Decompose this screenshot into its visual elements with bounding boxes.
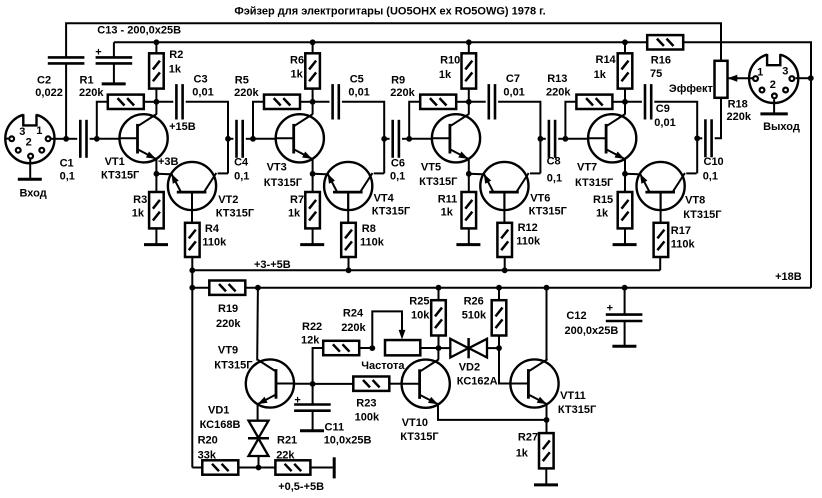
wire R5 left lead (253, 102, 264, 139)
transistor VT6 КТ315Г (480, 162, 528, 210)
svg-text:Вход: Вход (20, 187, 47, 199)
wire C8 right lead (558, 138, 565, 140)
svg-text:Фэйзер для электрогитары (UO5O: Фэйзер для электрогитары (UO5OHX ex RO5O… (234, 6, 545, 18)
wire collector VT5 (468, 102, 470, 115)
transistor VT10 КТ315Г (402, 359, 450, 407)
svg-text:C2: C2 (37, 75, 51, 87)
svg-text:R27: R27 (518, 432, 538, 444)
node base VT7 (563, 136, 569, 142)
capacitor C11 (electrolytic) (294, 405, 331, 411)
wire R22 left lead (313, 348, 324, 384)
svg-text:+: + (294, 395, 300, 407)
node input junction (63, 136, 69, 142)
wire C7 left lead (469, 101, 486, 103)
node phase sum 3 (538, 136, 544, 142)
wire base VT8 down (660, 192, 662, 223)
wire collector VT7 (624, 102, 626, 115)
wire VT11 emitter to R27 (546, 404, 548, 433)
wire R8 bottom lead (348, 257, 350, 270)
svg-text:1k: 1k (441, 207, 454, 219)
svg-text:1k: 1k (291, 69, 304, 81)
svg-text:+0,5-+5В: +0,5-+5В (278, 481, 324, 493)
transistor VT2 КТ315Г (168, 162, 216, 210)
resistor R3 1k (149, 192, 164, 228)
svg-text:КТ315Г: КТ315Г (214, 360, 253, 372)
wire R23 left lead (313, 383, 354, 385)
svg-text:R26: R26 (464, 296, 484, 308)
svg-text:VT7: VT7 (577, 162, 597, 174)
ground C12 (612, 345, 636, 348)
wire C10 left lead (697, 137, 702, 139)
wire R1 right lead (144, 101, 157, 103)
node collector VT5 (466, 99, 472, 105)
wire collector VT2 (218, 172, 228, 174)
svg-text:100k: 100k (355, 412, 380, 424)
wire VD1 to bottom node (258, 456, 260, 468)
node VD1 bottom (256, 465, 262, 471)
wire R13 right lead (612, 101, 625, 103)
transistor VT8 КТ315Г (637, 162, 685, 210)
wire C3 left lead (156, 101, 173, 103)
svg-text:110k: 110k (671, 239, 696, 251)
svg-text:C11: C11 (325, 422, 345, 434)
svg-text:110k: 110k (360, 236, 385, 248)
capacitor C9 0,01 (645, 84, 651, 119)
svg-text:КТ315Г: КТ315Г (558, 404, 597, 416)
svg-text:C5: C5 (350, 74, 364, 86)
node emitter VT7 (622, 171, 628, 177)
wire base VT4 down (347, 192, 349, 223)
svg-text:220k: 220k (546, 86, 571, 98)
svg-text:R12: R12 (518, 222, 538, 234)
transistor VT4 КТ315Г (324, 162, 372, 210)
svg-text:220k: 220k (341, 322, 366, 334)
node emitter VT5 (466, 171, 472, 177)
svg-text:0,01: 0,01 (654, 117, 675, 129)
wire R7 top lead (312, 174, 314, 192)
svg-text:22k: 22k (276, 449, 295, 461)
svg-text:1k: 1k (439, 69, 452, 81)
wire C9 to C10 node (654, 102, 697, 174)
wire C13 bottom lead (113, 64, 115, 84)
svg-text:КТ315Г: КТ315Г (400, 431, 439, 443)
wire VT11 collector (546, 288, 548, 360)
connector XS1 Вход (DIN-5) (5, 112, 54, 163)
svg-text:R1: R1 (80, 75, 94, 87)
node supply tap R10 (466, 39, 472, 45)
capacitor C12 (electrolytic) (606, 315, 643, 321)
wire emitter VT5 (468, 159, 470, 174)
resistor R26 510k (492, 300, 507, 335)
svg-text:VT2: VT2 (218, 194, 238, 206)
wire R26 top lead (498, 288, 500, 301)
svg-text:C8: C8 (547, 156, 561, 168)
svg-text:R2: R2 (169, 49, 183, 61)
wire supply rail right to +18V corner (683, 42, 811, 287)
resistor R1 220k (108, 95, 144, 109)
wire C11 top lead (312, 384, 314, 405)
svg-text:10k: 10k (411, 310, 430, 322)
svg-text:Эффект: Эффект (669, 83, 714, 95)
svg-text:1k: 1k (132, 207, 145, 219)
svg-text:33k: 33k (198, 449, 217, 461)
wire R27 bottom lead (545, 468, 547, 484)
node collector VT1 (154, 99, 160, 105)
node collector VT7 (622, 99, 628, 105)
svg-text:КТ315Г: КТ315Г (575, 177, 614, 189)
svg-text:+18В: +18В (775, 271, 802, 283)
node R26 tap (496, 285, 502, 291)
svg-text:1: 1 (36, 125, 42, 137)
svg-text:КТ315Г: КТ315Г (419, 176, 458, 188)
wire collector VT1 (155, 102, 157, 115)
wire emitter VT3 (312, 159, 314, 174)
wire C5 to node (342, 102, 384, 174)
wire C5 left lead (313, 101, 330, 103)
wire VT9 emitter to VD1 (257, 404, 259, 421)
wire base VT3 (253, 138, 276, 140)
capacitor C7 0,01 (489, 84, 495, 119)
wire C12 bottom lead (624, 321, 626, 346)
wire emitter VT7 (624, 159, 626, 174)
svg-text:C12: C12 (566, 310, 586, 322)
ground C13 (102, 82, 126, 85)
svg-text:R16: R16 (651, 55, 671, 67)
svg-text:10,0x25В: 10,0x25В (324, 434, 372, 446)
wire R1 left lead (97, 102, 108, 139)
svg-text:VD1: VD1 (208, 404, 229, 416)
wire base VT7 (565, 138, 588, 140)
node emitter join (544, 417, 550, 423)
zener VD2 КС162А (450, 338, 487, 358)
svg-text:0,1: 0,1 (234, 171, 249, 183)
wire C9 left lead (625, 101, 642, 103)
node R8 bias tap (346, 267, 352, 273)
wire R11 top lead (468, 174, 470, 192)
node emitter VT3 (310, 171, 316, 177)
wire R12 bottom lead (504, 257, 506, 270)
node C10 junction (694, 135, 700, 141)
resistor R5 220k (264, 95, 300, 109)
wire C6 right lead (402, 138, 409, 140)
wire R26 bottom lead (498, 336, 500, 349)
wire C11 bottom lead (312, 411, 314, 431)
wiper arrow R18 (728, 75, 738, 82)
wire bias rail +3-+5В (192, 269, 660, 271)
svg-text:110k: 110k (202, 236, 227, 248)
svg-text:C6: C6 (391, 157, 405, 169)
svg-text:КТ315Г: КТ315Г (101, 169, 140, 181)
wire R6 bottom lead (312, 89, 314, 102)
svg-text:КТ315Г: КТ315Г (216, 207, 255, 219)
wire collector VT8 (686, 172, 696, 174)
svg-text:1k: 1k (288, 207, 301, 219)
wiper arrow R24 (399, 330, 406, 340)
capacitor C13 (electrolytic) (96, 57, 133, 63)
resistor R13 220k (576, 95, 612, 109)
wire VT10 collector (437, 348, 439, 360)
wire +18V rail (245, 287, 811, 289)
transistor VT3 КТ315Г (276, 114, 324, 162)
svg-text:1: 1 (757, 67, 763, 79)
svg-text:R13: R13 (547, 73, 567, 85)
node supply tap R6 (310, 39, 316, 45)
svg-text:0,1: 0,1 (547, 172, 562, 184)
svg-text:12k: 12k (301, 334, 320, 346)
wire VT10 emitter (438, 404, 547, 420)
node output pin3 junction (808, 75, 814, 81)
wire R25 top lead (438, 288, 440, 301)
wire C1 right lead (90, 138, 97, 140)
svg-text:R21: R21 (277, 435, 297, 447)
svg-text:R17: R17 (671, 225, 691, 237)
wire base VT6 down (503, 192, 505, 223)
wire R18 wiper to output pin1 (728, 77, 753, 79)
transistor VT7 КТ315Г (588, 114, 636, 162)
ground R21 (bar) (333, 457, 336, 478)
svg-text:R8: R8 (362, 223, 376, 235)
wire R11 bottom lead (468, 228, 470, 244)
resistor R16 (647, 35, 683, 49)
ground Вход (18, 178, 42, 181)
wire R10 top lead (468, 42, 470, 53)
node collector VT3 (310, 99, 316, 105)
wire R21 to ground (310, 467, 332, 469)
transistor VT1 КТ315Г (120, 114, 168, 162)
svg-text:R25: R25 (409, 296, 429, 308)
svg-text:1k: 1k (169, 64, 182, 76)
ground R11 (456, 243, 480, 246)
node +18V rail left (189, 285, 195, 291)
resistor R6 1k (305, 53, 320, 88)
wire R3 top lead (155, 174, 157, 192)
wire bottom left corner (192, 467, 202, 469)
wire R23 to VT10 base (389, 383, 401, 385)
resistor R25 10k (431, 300, 446, 335)
svg-text:+3-+5В: +3-+5В (254, 259, 291, 271)
wire R6 top lead (312, 42, 314, 53)
svg-text:Выход: Выход (763, 121, 800, 133)
svg-text:VT6: VT6 (530, 192, 550, 204)
resistor R20 33k (202, 460, 238, 474)
node C12 tap (622, 285, 628, 291)
wire C10 right lead to R18 bottom (715, 98, 721, 139)
wire C3 to node (186, 102, 228, 174)
zener VD1 КС168В (248, 421, 269, 456)
wire top rail input to R18 (65, 64, 67, 139)
wire output pin3 to +18V line (796, 77, 812, 79)
svg-text:1k: 1k (594, 69, 607, 81)
ground R7 (300, 243, 324, 246)
resistor R21 22k (275, 460, 310, 474)
svg-text:КС168В: КС168В (200, 419, 241, 431)
svg-text:220k: 220k (216, 318, 241, 330)
svg-text:C7: C7 (506, 73, 520, 85)
capacitor C5 0,01 (333, 84, 339, 119)
wire C1 left lead (66, 138, 77, 140)
svg-text:220k: 220k (390, 87, 415, 99)
svg-text:C3: C3 (194, 74, 208, 86)
wire emitter link VT4 (313, 173, 327, 175)
resistor R12 110k (497, 223, 512, 257)
node VT9 collector tap (255, 285, 261, 291)
resistor R7 1k (305, 192, 320, 228)
wire C7 to node (498, 102, 540, 174)
node bias rail left (189, 267, 195, 273)
transistor VT9 КТ315Г (246, 359, 294, 407)
resistor R14 1k (618, 53, 633, 88)
svg-text:C4: C4 (234, 157, 249, 169)
svg-text:110k: 110k (516, 235, 541, 247)
svg-text:R4: R4 (205, 223, 220, 235)
svg-text:VT10: VT10 (402, 417, 428, 429)
resistor R19 220k (209, 281, 245, 295)
svg-text:VD2: VD2 (459, 361, 480, 373)
ground R3 (144, 243, 168, 246)
transistor VT5 КТ315Г (432, 114, 480, 162)
ground R27 (534, 483, 558, 486)
wire emitter link VT8 (625, 173, 639, 175)
resistor R9 220k (420, 95, 456, 109)
capacitor C4 0,1 (237, 120, 243, 158)
svg-text:R9: R9 (391, 75, 405, 87)
svg-text:R20: R20 (198, 435, 218, 447)
ground Выход (760, 112, 787, 115)
wire emitter link VT6 (469, 173, 483, 175)
svg-text:220k: 220k (79, 87, 104, 99)
connector XS2 Выход (DIN-5) (749, 52, 798, 103)
wire R10 bottom lead (468, 89, 470, 102)
svg-text:0,022: 0,022 (35, 87, 63, 99)
svg-text:3: 3 (782, 66, 788, 78)
transistor VT11 КТ315Г (510, 359, 558, 407)
svg-text:VT4: VT4 (374, 192, 395, 204)
node R25 tap (436, 285, 442, 291)
svg-text:C13 - 200,0x25В: C13 - 200,0x25В (97, 25, 181, 37)
svg-text:+: + (95, 47, 101, 59)
svg-text:КТ315Г: КТ315Г (529, 206, 568, 218)
node R12 bias tap (502, 267, 508, 273)
svg-text:+15В: +15В (169, 121, 196, 133)
wire R3 bottom lead (155, 228, 157, 244)
svg-text:КС162А: КС162А (457, 375, 498, 387)
node base VT1 (94, 136, 100, 142)
wire collector VT6 (530, 172, 540, 174)
svg-text:C1: C1 (60, 157, 74, 169)
wire VD2 right lead (487, 347, 499, 349)
svg-text:R19: R19 (218, 303, 238, 315)
wire R14 top lead (624, 42, 626, 53)
svg-text:R7: R7 (290, 194, 304, 206)
wire pin3 stub (5, 138, 8, 140)
svg-text:0,01: 0,01 (503, 86, 524, 98)
node emitter VT1 (154, 171, 160, 177)
resistor R22 12k (323, 341, 359, 355)
wire R9 right lead (456, 101, 469, 103)
wire base VT1 (97, 138, 120, 140)
svg-text:R24: R24 (343, 308, 364, 320)
svg-text:R5: R5 (235, 75, 249, 87)
capacitor C6 0,1 (393, 120, 399, 158)
svg-text:0,1: 0,1 (60, 171, 75, 183)
svg-text:75: 75 (650, 68, 662, 80)
svg-text:КТ315Г: КТ315Г (372, 206, 411, 218)
svg-text:0,1: 0,1 (703, 171, 718, 183)
wire collector VT4 (374, 172, 384, 174)
wire R13 left lead (565, 102, 576, 139)
svg-text:R23: R23 (356, 398, 376, 410)
resistor R23 100k (353, 377, 389, 391)
resistor R8 110k (341, 223, 356, 257)
node supply tap R2 (154, 39, 160, 45)
resistor R4 110k (185, 223, 200, 257)
wire R20 to R21 (238, 467, 275, 469)
svg-text:2: 2 (770, 79, 776, 91)
wire R22 to R24 node (359, 347, 372, 349)
wire R9 left lead (409, 102, 420, 139)
svg-text:VT8: VT8 (685, 195, 705, 207)
wire C12 top lead (624, 288, 626, 315)
wire C4 right lead (246, 138, 253, 140)
svg-text:R15: R15 (593, 194, 613, 206)
wire VT11 base (499, 348, 510, 383)
svg-text:Частота: Частота (361, 360, 405, 372)
svg-text:C10: C10 (704, 156, 724, 168)
capacitor C3 0,01 (176, 84, 182, 119)
capacitor C2 (48, 57, 85, 63)
svg-text:VT3: VT3 (267, 162, 287, 174)
node R22/R24 (369, 345, 375, 351)
svg-text:R10: R10 (440, 55, 460, 67)
svg-text:1k: 1k (516, 447, 529, 459)
wire R5 right lead (300, 101, 313, 103)
svg-text:VT11: VT11 (560, 390, 586, 402)
svg-text:R18: R18 (728, 98, 748, 110)
ground stem Вход (29, 159, 31, 179)
ground C11 (300, 429, 324, 432)
node base VT5 (406, 136, 412, 142)
svg-text:2: 2 (26, 137, 32, 149)
wire R15 bottom lead (624, 228, 626, 244)
svg-text:220k: 220k (727, 111, 752, 123)
svg-text:R22: R22 (302, 321, 322, 333)
resistor R15 1k (618, 192, 633, 228)
resistor R17 110k (654, 223, 669, 257)
svg-text:R3: R3 (133, 194, 147, 206)
resistor R2 1k (149, 53, 164, 88)
wire base VT2 down (191, 192, 193, 223)
wire R14 bottom lead (624, 89, 626, 102)
wire collector VT3 (312, 102, 314, 115)
wire C2 top to rail corner (66, 23, 721, 61)
svg-text:C9: C9 (656, 103, 670, 115)
capacitor C10 0,1 (705, 119, 711, 157)
potentiometer R18 220k (Эффект) (715, 61, 728, 98)
resistor R11 1k (462, 192, 477, 228)
resistor R27 1k (539, 433, 554, 468)
svg-text:VT1: VT1 (105, 156, 125, 168)
svg-text:R14: R14 (596, 54, 617, 66)
wire R2 top lead (155, 42, 157, 53)
wire R15 top lead (624, 174, 626, 192)
svg-text:0,01: 0,01 (348, 86, 369, 98)
node phase sum 1 (225, 136, 231, 142)
svg-text:1k: 1k (596, 207, 609, 219)
node base VT3 (250, 136, 256, 142)
ground stem Выход (773, 99, 775, 113)
svg-text:3: 3 (19, 126, 25, 138)
wire C4 left lead (228, 138, 233, 140)
